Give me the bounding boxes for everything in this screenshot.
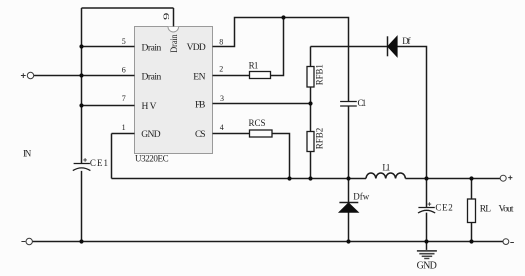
svg-text:CE1: CE1: [90, 158, 108, 168]
svg-text:7: 7: [122, 94, 126, 103]
svg-text:9: 9: [162, 13, 171, 20]
svg-text:GND: GND: [417, 260, 437, 271]
svg-text:2: 2: [219, 65, 223, 74]
svg-text:4: 4: [220, 123, 224, 132]
svg-text:8: 8: [219, 37, 223, 46]
svg-text:C1: C1: [358, 98, 367, 108]
svg-text:1: 1: [122, 123, 126, 132]
svg-text:IN: IN: [23, 148, 32, 158]
svg-text:EN: EN: [193, 73, 205, 83]
svg-text:RFB1: RFB1: [314, 64, 324, 85]
svg-text:6: 6: [122, 65, 126, 74]
svg-text:RFB2: RFB2: [314, 128, 324, 150]
svg-text:Dfw: Dfw: [353, 192, 370, 202]
svg-text:L1: L1: [382, 162, 390, 172]
svg-text:RCS: RCS: [249, 118, 266, 128]
svg-text:FB: FB: [195, 100, 205, 110]
svg-text:5: 5: [122, 37, 126, 46]
svg-text:3: 3: [220, 94, 224, 103]
svg-text:R1: R1: [249, 60, 259, 70]
svg-text:CE2: CE2: [435, 202, 452, 212]
svg-text:Drain: Drain: [142, 43, 162, 53]
svg-text:Vout: Vout: [499, 205, 514, 215]
svg-text:Drain: Drain: [170, 34, 180, 52]
svg-text:GND: GND: [141, 130, 160, 140]
svg-text:HV: HV: [142, 102, 157, 112]
svg-text:Df: Df: [402, 36, 410, 46]
svg-text:Drain: Drain: [142, 73, 162, 83]
svg-text:CS: CS: [195, 130, 206, 140]
svg-text:VDD: VDD: [187, 43, 206, 53]
svg-text:U3220EC: U3220EC: [135, 154, 169, 164]
svg-text:RL: RL: [480, 205, 491, 215]
